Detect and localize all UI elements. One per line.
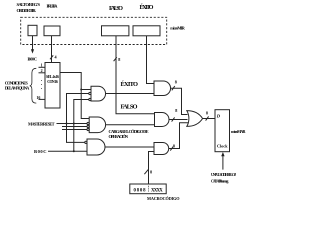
- label B00C (top): [28, 56, 38, 61]
- svg-text:MASTER RESET: MASTER RESET: [28, 122, 55, 127]
- inverter bubble U1 in3: [89, 98, 91, 100]
- label EXITO (top): [140, 3, 154, 11]
- svg-text:UN PULSO DE RELOJ: UN PULSO DE RELOJ: [211, 173, 236, 177]
- svg-text:microMIR: microMIR: [170, 25, 185, 30]
- svg-text:2: 2: [41, 68, 43, 73]
- wire: U2 output to U5: [106, 124, 155, 126]
- AND gate U1: [91, 86, 106, 101]
- wire: FALSO field down then right to AND gate U5: [116, 36, 155, 114]
- register field box (salto/regs): [28, 25, 37, 35]
- wire V1: U1 inverted input to gate U3, master reset net: [67, 94, 89, 143]
- svg-text:8: 8: [118, 57, 120, 62]
- bus slash 8 on OR output: [206, 116, 209, 120]
- svg-text:B00C: B00C: [34, 149, 47, 154]
- svg-text:microMAR: microMAR: [231, 129, 246, 134]
- AND gate U6: [154, 143, 169, 155]
- wire: clock input arrow up into register: [222, 156, 224, 170]
- wire: U6 output up to OR input 3: [169, 123, 189, 149]
- label UN PULSO DE RELOJ CADA 100 nanoseg: [211, 173, 236, 183]
- bus slash 8: [114, 57, 117, 61]
- selector input pin 1: [39, 66, 46, 68]
- svg-text:8: 8: [206, 111, 208, 116]
- register field box FALSO address: [102, 26, 129, 36]
- label EXITO (mid): [121, 80, 139, 88]
- wire: B00C into U3: [48, 150, 87, 152]
- svg-text:FALSO: FALSO: [121, 103, 138, 110]
- bus slash 4: [50, 55, 53, 59]
- svg-text:MACROCÓDIGO: MACROCÓDIGO: [147, 196, 180, 201]
- brace for machine conditions: [30, 68, 37, 103]
- svg-text:Clock: Clock: [217, 144, 228, 149]
- AND gate U2: [89, 117, 105, 133]
- AND gate U5: [155, 113, 170, 127]
- inverter bubble U2 in3: [87, 125, 89, 127]
- inverter bubble U2 in4: [87, 128, 89, 130]
- label CONDICIONES DE LA MAQUINA: [5, 81, 30, 91]
- label PRUEBA: [47, 3, 59, 8]
- register (microMAR) box: [215, 110, 230, 152]
- label MASTER RESET: [28, 122, 55, 127]
- svg-text:PRUEBA: PRUEBA: [47, 3, 59, 8]
- OR gate U7: [187, 111, 203, 127]
- junction: [66, 123, 68, 125]
- wire: macrocode up to U6 input 2: [149, 152, 155, 185]
- svg-text:8: 8: [175, 80, 177, 85]
- label microMAR: [231, 129, 246, 134]
- svg-text:8: 8: [150, 169, 152, 174]
- dashed microinstruction register box: [21, 17, 167, 44]
- inverter bubble U2 in2: [87, 122, 89, 124]
- label B00C (bottom): [34, 149, 47, 154]
- svg-text:CON 16: CON 16: [47, 80, 58, 84]
- bus slash 8 on U4 output: [172, 86, 175, 90]
- wire: branch to U1 input 1: [81, 89, 91, 91]
- junction: [73, 150, 75, 152]
- wire: EXITO field down then right to AND gate U4: [147, 36, 155, 84]
- label SALTO/REG'S ORD.DE DIR.: [17, 2, 41, 13]
- svg-text:16: 16: [36, 95, 40, 100]
- svg-text:ORD.DE DIR.: ORD.DE DIR.: [17, 8, 37, 13]
- svg-text:CADA 100 nanoseg: CADA 100 nanoseg: [211, 179, 229, 183]
- label CARGAR EL CODIGO DE OPERACION: [109, 129, 149, 139]
- wire: U2 inverted input 3: [62, 126, 87, 128]
- svg-text:SALTO/REG'S: SALTO/REG'S: [17, 2, 41, 7]
- label FALSO (mid): [121, 103, 138, 110]
- svg-text:B00C: B00C: [28, 56, 38, 61]
- svg-text:4: 4: [55, 55, 58, 60]
- svg-text:D: D: [216, 113, 221, 118]
- wire: arrow down from salto field: [32, 36, 34, 50]
- bus slash 8 on U6 output: [170, 146, 173, 150]
- selector input pin 2: [39, 72, 46, 74]
- label microMIR: [170, 25, 185, 30]
- svg-text:8: 8: [173, 143, 175, 148]
- pin label D: [216, 113, 221, 118]
- label FALSO (top): [109, 5, 123, 12]
- bus slash 8 on U5 output: [172, 117, 175, 121]
- inverter bubble U1 in2: [89, 92, 91, 94]
- wire: U5 output to OR: [169, 119, 188, 121]
- wire: OR output to register D: [203, 118, 215, 120]
- ellipsis dots between pins: [40, 80, 43, 89]
- wire: U2 inverted input 4: [62, 129, 87, 131]
- wire: selector output right then down: [60, 73, 89, 119]
- svg-text:8: 8: [175, 108, 177, 113]
- selector input pin 16: [39, 98, 46, 100]
- wire: PRUEBA field down to selector: [51, 36, 53, 63]
- svg-text:CARGAR EL CÓDIGO DE: CARGAR EL CÓDIGO DE: [109, 129, 149, 134]
- register field box PRUEBA: [44, 26, 60, 36]
- inverter bubble U3 in1: [85, 141, 87, 143]
- register field box EXITO address: [133, 26, 160, 36]
- junction node to gate U1: [80, 89, 82, 91]
- svg-text:ÉXITO: ÉXITO: [140, 3, 154, 11]
- svg-text:1: 1: [41, 63, 43, 68]
- AND gate U3: [87, 139, 105, 155]
- wire: U1 output to U4: [106, 93, 155, 95]
- wire: master reset into U2: [57, 123, 88, 125]
- junction: [73, 123, 75, 125]
- label MACROCODIGO: [147, 196, 180, 201]
- svg-text:DE LA MÁQUINA: DE LA MÁQUINA: [5, 85, 30, 90]
- bus slash 8 on macrocode wire: [144, 170, 148, 175]
- svg-text:ÉXITO: ÉXITO: [121, 80, 139, 88]
- svg-text:0808: 0808: [134, 189, 147, 194]
- svg-text:OPERACIÓN: OPERACIÓN: [109, 134, 129, 139]
- pin label Clock: [217, 144, 228, 149]
- AND gate U4: [154, 81, 171, 96]
- svg-text:FALSO: FALSO: [109, 5, 123, 12]
- wire: U4 output to OR: [171, 88, 188, 114]
- macrocode register box: [130, 184, 166, 194]
- selector box SEL 4x16: [45, 63, 60, 109]
- svg-text:XXXX: XXXX: [151, 189, 164, 194]
- svg-text:SEL 4x16: SEL 4x16: [46, 75, 59, 79]
- wire V2: U1 inverted input 3 down to B00C net: [74, 100, 89, 152]
- wire: U3 output to U6: [105, 146, 154, 148]
